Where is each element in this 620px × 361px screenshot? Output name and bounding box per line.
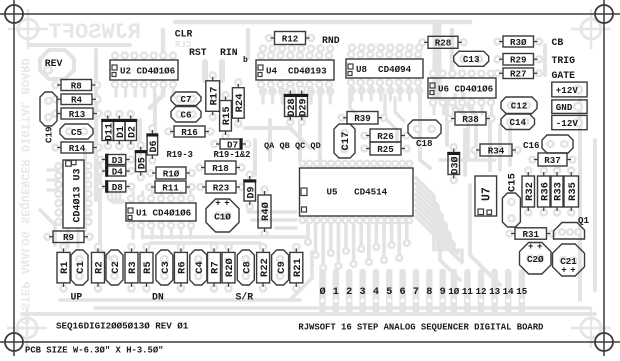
svg-text:D7: D7 (227, 139, 238, 150)
svg-text:R13: R13 (69, 109, 86, 120)
svg-text:R16: R16 (181, 127, 198, 138)
capacitor C6 (171, 107, 201, 123)
diode D28 (284, 91, 298, 121)
svg-text:C16: C16 (523, 140, 540, 151)
capacitor C7 (171, 92, 201, 106)
fiducial target top-right (595, 5, 613, 23)
diode D2 (124, 116, 138, 145)
svg-text:R25: R25 (377, 144, 394, 155)
resistor R22 (257, 248, 271, 287)
diode D3 (102, 154, 130, 166)
svg-text:11: 11 (462, 286, 474, 297)
svg-text:R6: R6 (177, 261, 189, 274)
svg-text:CD4Ø13 U3: CD4Ø13 U3 (72, 168, 84, 222)
resistor R32 (522, 172, 536, 211)
svg-text:C8: C8 (242, 261, 254, 274)
svg-text:-12V: -12V (556, 118, 579, 129)
resistor R37 (534, 153, 571, 166)
wire ghost bundle into U1 (108, 190, 114, 203)
wire ghost bus under U5 (306, 219, 310, 240)
svg-text:C1Ø: C1Ø (214, 211, 231, 222)
connector J+12V (552, 82, 587, 97)
svg-text:R5: R5 (142, 261, 154, 274)
resistor R12 (271, 32, 310, 45)
wire ghost between C10 and U5 (248, 210, 296, 213)
svg-text:R28: R28 (435, 38, 452, 49)
svg-text:C3: C3 (160, 261, 172, 274)
IC U3 (63, 160, 84, 228)
svg-text:R14: R14 (69, 143, 86, 154)
svg-text:R3: R3 (127, 261, 139, 274)
capacitor C2 (106, 250, 123, 285)
svg-text:D9: D9 (246, 186, 257, 198)
svg-text:R4Ø: R4Ø (260, 201, 272, 221)
svg-text:Q1: Q1 (578, 215, 590, 226)
svg-text:R24: R24 (234, 93, 246, 112)
svg-text:C14: C14 (509, 117, 526, 128)
resistor R33 (551, 172, 565, 211)
svg-text:+: + (224, 199, 229, 209)
resistor R34 (476, 144, 516, 156)
wire ghost traces connector pads region (40, 50, 74, 79)
resistor R25 (366, 142, 405, 155)
svg-text:R18: R18 (212, 163, 229, 174)
svg-text:C4: C4 (194, 261, 206, 274)
resistor R27 (499, 68, 538, 80)
IC U2 (110, 60, 178, 80)
svg-text:C2Ø: C2Ø (527, 254, 544, 265)
ghost fiducial top-right (571, 9, 611, 49)
svg-text:TRIG: TRIG (552, 55, 576, 66)
capacitor C16 (542, 135, 573, 153)
svg-text:13: 13 (489, 286, 501, 297)
svg-text:R19-1&2: R19-1&2 (214, 150, 251, 160)
diode D8 (102, 180, 130, 193)
wire ghost U3 side traces (48, 168, 58, 171)
wire ghost center right (498, 125, 502, 170)
diode D30 (447, 149, 461, 179)
diode D6 (146, 130, 160, 159)
capacitor C18 (408, 120, 441, 138)
resistor R7 (208, 248, 222, 287)
capacitor C13 (454, 51, 489, 66)
resistor R39 (343, 112, 382, 125)
svg-text:QA QB QC QD: QA QB QC QD (264, 141, 321, 151)
ghost fiducial bottom-left (7, 308, 47, 348)
svg-text:16 STEP ANALOG SEQUENCER DIGIT: 16 STEP ANALOG SEQUENCER DIGITAL BOARD (18, 58, 32, 332)
svg-text:GND: GND (556, 102, 573, 113)
svg-text:8: 8 (426, 287, 432, 298)
svg-text:5: 5 (386, 287, 392, 298)
svg-text:D29: D29 (298, 98, 309, 116)
resistor R23 (202, 181, 240, 193)
svg-text:R9: R9 (63, 232, 74, 243)
IC U8 (346, 59, 423, 78)
svg-text:14: 14 (503, 286, 515, 297)
wire ghost right column (470, 185, 500, 285)
IC U7 (475, 176, 497, 216)
IC U5 (300, 168, 414, 216)
svg-text:RJWSOFT: RJWSOFT (49, 20, 141, 45)
wire ghost elbows near C18/U8 (455, 95, 468, 160)
svg-text:D8: D8 (112, 182, 124, 193)
IC U6 (428, 78, 496, 98)
svg-text:1: 1 (333, 287, 339, 298)
capacitor C5 (60, 124, 93, 139)
svg-text:R7: R7 (210, 261, 222, 274)
svg-text:S/R: S/R (236, 292, 254, 303)
svg-text:R33: R33 (553, 182, 565, 201)
svg-text:RND: RND (322, 35, 340, 46)
diode D11 (101, 116, 115, 145)
fiducial target bottom-left (5, 333, 23, 351)
resistor R29 (499, 54, 538, 66)
svg-text:6: 6 (400, 287, 406, 298)
svg-text:UP: UP (71, 292, 83, 303)
svg-text:C15: C15 (507, 173, 519, 192)
resistor R4 (57, 94, 96, 106)
svg-text:R15: R15 (221, 106, 233, 125)
resistor R28 (424, 36, 462, 48)
svg-text:R37: R37 (544, 155, 561, 166)
svg-text:U4 CD4Ø193: U4 CD4Ø193 (266, 65, 327, 76)
resistor R17 (206, 77, 221, 116)
capacitor C12 (501, 97, 537, 114)
svg-text:R12: R12 (282, 33, 299, 44)
resistor R10 (152, 167, 190, 179)
fiducial target top-left (5, 5, 23, 23)
resistor R18 (201, 161, 240, 174)
svg-text:C17: C17 (340, 132, 352, 151)
wire ghost bottom strip (60, 298, 300, 301)
svg-text:b: b (243, 56, 248, 65)
resistor R24 (232, 84, 246, 123)
svg-text:R32: R32 (524, 182, 536, 201)
svg-text:R36: R36 (539, 182, 551, 201)
resistor R15 (220, 97, 234, 136)
svg-text:U8 CD4Ø94: U8 CD4Ø94 (356, 64, 412, 75)
svg-text:R11: R11 (162, 182, 179, 193)
capacitor C17 (334, 124, 355, 158)
diode D7 (216, 138, 246, 150)
resistor R6 (174, 248, 188, 287)
svg-text:R35: R35 (567, 182, 579, 201)
svg-text:R26: R26 (377, 131, 394, 142)
wire ghost double pad rows U4/U8 (259, 44, 268, 53)
svg-text:15: 15 (516, 286, 528, 297)
svg-text:DN: DN (152, 292, 164, 303)
wire ghost diagonal fan right of U5 (416, 178, 434, 250)
svg-text:C13: C13 (463, 54, 480, 65)
svg-text:D6: D6 (149, 140, 160, 152)
resistor R14 (57, 142, 97, 154)
capacitor C3 (156, 250, 173, 285)
capacitor C8 (237, 250, 254, 285)
svg-text:2: 2 (346, 287, 352, 298)
svg-text:+: + (537, 242, 542, 252)
svg-text:D3Ø: D3Ø (449, 156, 461, 174)
capacitor C20 (520, 242, 552, 274)
svg-text:R1: R1 (59, 261, 71, 274)
svg-text:Ø: Ø (319, 286, 325, 298)
svg-text:R8: R8 (71, 80, 83, 91)
svg-text:C7: C7 (180, 94, 191, 105)
svg-text:+: + (561, 266, 566, 276)
capacitor C9 (272, 250, 289, 285)
svg-text:C18: C18 (416, 138, 433, 149)
wire ghost IC pin stubs (261, 84, 264, 103)
resistor R30 (499, 36, 538, 48)
resistor R2 (92, 248, 106, 287)
svg-text:CB: CB (552, 37, 564, 48)
capacitor C15 (502, 193, 520, 227)
svg-text:U5 CD4514: U5 CD4514 (327, 187, 388, 198)
svg-text:R39: R39 (354, 113, 371, 124)
svg-text:4: 4 (373, 287, 379, 298)
resistor R1 (57, 248, 71, 287)
svg-text:U2 CD4Ø1Ø6: U2 CD4Ø1Ø6 (120, 65, 175, 76)
svg-text:R17: R17 (208, 87, 220, 106)
resistor R13 (57, 108, 97, 120)
wire ghost under U1 and bottom bands (145, 235, 308, 239)
ghost fiducial bottom-right (571, 308, 611, 348)
resistor R3 (125, 248, 139, 287)
svg-text:R22: R22 (259, 258, 271, 277)
diode D5 (135, 147, 149, 176)
svg-text:D3: D3 (112, 155, 124, 166)
IC U1 (126, 203, 196, 221)
svg-text:CLR: CLR (175, 29, 193, 40)
svg-text:C9: C9 (276, 261, 288, 274)
transistor Q1 (554, 215, 590, 239)
svg-text:SEQ16DIGI2ØØ5Ø13Ø REV Ø1: SEQ16DIGI2ØØ5Ø13Ø REV Ø1 (56, 321, 189, 332)
svg-text:R21: R21 (292, 258, 304, 277)
wire ghost pads under number row (319, 272, 326, 310)
svg-text:R23: R23 (213, 182, 230, 193)
svg-text:R29: R29 (510, 55, 527, 66)
svg-text:C2: C2 (110, 261, 122, 274)
connector JGND (552, 100, 587, 114)
resistor R9 (49, 231, 88, 243)
IC U4 (256, 60, 334, 80)
svg-text:R3Ø: R3Ø (510, 37, 527, 48)
svg-text:R2: R2 (94, 261, 106, 274)
svg-text:7: 7 (413, 287, 419, 298)
svg-text:12: 12 (475, 286, 486, 297)
svg-text:9: 9 (440, 287, 446, 298)
svg-text:D2: D2 (127, 126, 138, 138)
svg-text:REV: REV (45, 58, 63, 69)
svg-text:R34: R34 (488, 145, 505, 156)
fiducial target bottom-right (595, 333, 613, 351)
resistor R38 (451, 112, 490, 125)
svg-text:R38: R38 (462, 114, 479, 125)
capacitor C4 (190, 250, 207, 285)
svg-text:D4: D4 (112, 166, 124, 177)
resistor R21 (290, 248, 304, 287)
svg-text:RST: RST (189, 47, 207, 58)
svg-text:3: 3 (359, 287, 365, 298)
svg-text:R2Ø: R2Ø (224, 258, 236, 278)
svg-text:C5: C5 (71, 127, 83, 138)
capacitor C14 (501, 114, 535, 130)
svg-text:RIN: RIN (220, 47, 238, 58)
diode D1 (113, 116, 127, 145)
diode D9 (243, 176, 257, 205)
resistor R26 (366, 129, 405, 142)
resistor R5 (140, 248, 154, 287)
svg-text:+: + (570, 266, 575, 276)
diode D4 (102, 165, 130, 177)
svg-text:R1Ø: R1Ø (163, 168, 180, 179)
capacitor C1 (71, 250, 88, 285)
svg-text:RJWSOFT 16 STEP ANALOG SEQUENC: RJWSOFT 16 STEP ANALOG SEQUENCER DIGITAL… (298, 323, 543, 333)
svg-text:C19: C19 (44, 126, 55, 143)
svg-text:C12: C12 (511, 101, 528, 112)
resistor R11 (151, 181, 190, 193)
svg-text:PCB SIZE W-6.3Ø" X H-3.5Ø": PCB SIZE W-6.3Ø" X H-3.5Ø" (25, 346, 163, 356)
svg-text:R4: R4 (71, 95, 83, 106)
svg-text:R27: R27 (510, 69, 527, 80)
resistor R16 (170, 126, 209, 138)
wire ghost stubs below U1 and U3 (131, 223, 134, 238)
resistor R35 (564, 172, 579, 211)
svg-text:U1 CD4Ø1Ø6: U1 CD4Ø1Ø6 (136, 207, 191, 218)
svg-text:+: + (215, 199, 220, 209)
resistor R36 (538, 172, 552, 211)
capacitor C10 (206, 199, 239, 233)
wire ghost traces middle (83, 150, 87, 230)
svg-text:D5: D5 (137, 157, 148, 169)
svg-text:U6 CD4Ø1Ø6: U6 CD4Ø1Ø6 (438, 83, 493, 94)
svg-text:C6: C6 (180, 110, 191, 121)
wire ghost traces top area (175, 20, 470, 25)
resistor R40 (258, 191, 272, 232)
svg-text:+: + (528, 242, 533, 252)
resistor R20 (222, 248, 236, 287)
svg-text:R19-3: R19-3 (167, 150, 193, 160)
svg-text:C1: C1 (75, 261, 87, 274)
step number nodes 0-15 (319, 286, 527, 298)
svg-text:+12V: +12V (556, 85, 579, 96)
resistor R8 (57, 80, 96, 92)
capacitor C19 (40, 92, 57, 126)
ghost fiducial top-left (8, 9, 48, 49)
svg-text:R31: R31 (522, 229, 539, 240)
diode D29 (295, 91, 309, 121)
capacitor C21 (553, 244, 585, 276)
svg-text:1Ø: 1Ø (448, 286, 460, 297)
connector J-12V (552, 115, 587, 129)
resistor R31 (511, 228, 551, 240)
svg-text:U7: U7 (481, 187, 494, 201)
svg-text:GATE: GATE (552, 70, 576, 81)
